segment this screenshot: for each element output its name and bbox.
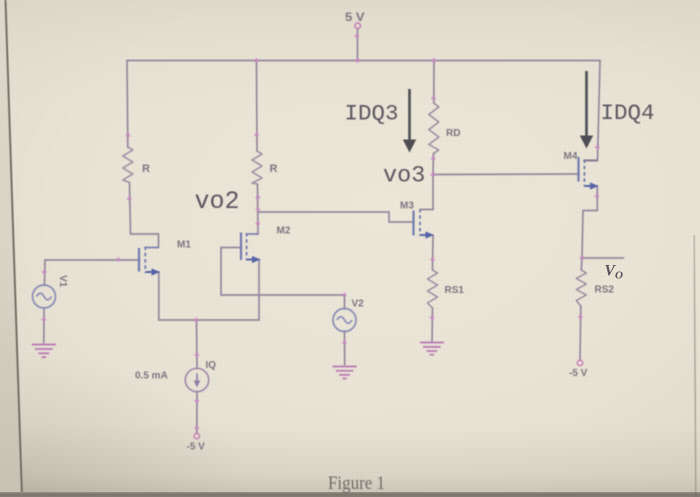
- transistor M3: [414, 209, 435, 239]
- svg-text:vo2: vo2: [195, 187, 240, 216]
- wire top supply rail: [127, 60, 600, 62]
- wire 5V drop: [357, 29, 359, 61]
- svg-text:V2: V2: [352, 299, 365, 310]
- node -5V port top: [194, 426, 199, 431]
- bottom-left corner vignette: [0, 250, 420, 497]
- node RD top: [431, 96, 436, 101]
- node V2 bottom: [342, 340, 347, 345]
- wire vo3 down to M3 drain: [432, 175, 434, 210]
- ground (under V1): [32, 345, 56, 358]
- voltage source V2: [333, 309, 356, 332]
- terminal -5V port (under IQ): [194, 433, 199, 438]
- wire M3 source down to RS1: [432, 236, 435, 271]
- svg-text:-5 V: -5 V: [187, 442, 206, 453]
- node tail junction: [194, 318, 199, 323]
- ground (under V2): [333, 367, 357, 379]
- node vo2: [256, 207, 261, 212]
- wire V1 to M1 gate: [45, 260, 140, 285]
- wire M2 source down: [258, 260, 260, 321]
- wire M2 gate to V2: [221, 248, 345, 296]
- photo edge dark line: [6, 0, 23, 497]
- wire vo3 node to M4 gate: [433, 173, 579, 176]
- wire V2 bottom to ground: [344, 332, 346, 366]
- wire V1 bottom to ground: [43, 308, 45, 343]
- svg-text:-5 V: -5 V: [569, 368, 588, 379]
- wire rail down to R2: [256, 61, 259, 152]
- node RS2 bottom: [578, 315, 583, 320]
- resistor RS1: [428, 270, 438, 308]
- bottom dark band: [0, 492, 700, 497]
- transistor M2: [241, 233, 261, 264]
- wire RD bottom to vo3 node: [432, 154, 435, 175]
- transistor M1: [139, 247, 160, 276]
- svg-text:0.5 mA: 0.5 mA: [135, 371, 168, 382]
- svg-text:IDQ3: IDQ3: [345, 101, 399, 127]
- top-left corner shade: [0, 0, 700, 110]
- svg-text:M1: M1: [177, 240, 191, 251]
- node V1 bottom: [41, 317, 46, 322]
- right photo edge line: [694, 235, 696, 497]
- svg-text:RD: RD: [446, 128, 460, 139]
- svg-text:R: R: [142, 163, 150, 175]
- bottom fade: [0, 425, 700, 493]
- current arrow IDQ4: [580, 71, 593, 149]
- svg-text:M2: M2: [277, 226, 291, 237]
- svg-text:Figure 1: Figure 1: [328, 474, 385, 494]
- node V2 corner: [342, 293, 347, 298]
- node M3 source wire: [430, 257, 435, 262]
- svg-text:IQ: IQ: [206, 360, 217, 371]
- wire IQ bottom to -5V terminal: [196, 392, 198, 434]
- node M4 drain wire: [595, 145, 600, 150]
- label Vo (handwritten): [605, 263, 624, 282]
- node rail at RD: [432, 58, 437, 63]
- node R2 top: [254, 133, 259, 138]
- svg-text:vo3: vo3: [383, 163, 425, 190]
- svg-text:IDQ4: IDQ4: [601, 100, 655, 126]
- wire right rail down to M4 drain: [585, 61, 601, 161]
- wire M1 source down: [158, 272, 160, 320]
- svg-text:M4: M4: [564, 151, 578, 162]
- node IQ bottom: [195, 399, 200, 404]
- wire RS1 bottom to ground: [431, 308, 434, 342]
- wire M4 source down to Vo node: [582, 186, 597, 258]
- node rail at 5V: [355, 58, 360, 63]
- wire R1 bottom to M1 drain: [130, 183, 159, 248]
- svg-text:M3: M3: [400, 201, 414, 212]
- node M2 drain wire: [256, 221, 261, 226]
- node R1 top: [126, 133, 131, 138]
- node Vo: [580, 256, 585, 261]
- node M1 gate wire: [116, 257, 121, 262]
- transistor M4: [579, 157, 599, 190]
- wire RS2 top: [580, 258, 583, 270]
- svg-text:RS1: RS1: [445, 285, 465, 296]
- node vo3: [431, 172, 436, 177]
- wire tail node down to IQ: [196, 320, 199, 369]
- left margin beyond photo edge: [0, 0, 22, 497]
- wire left rail down to R: [126, 61, 129, 148]
- node IQ top: [195, 353, 200, 358]
- wire V2 drop: [344, 295, 346, 309]
- node below 5V port: [354, 34, 359, 39]
- node RS1 bottom: [430, 315, 435, 320]
- wire Vo node tick: [582, 257, 624, 259]
- terminal -5V port (under RS2): [577, 360, 582, 365]
- wire vo2 node to M3 gate: [258, 212, 413, 222]
- wire common source tail rail: [159, 319, 259, 321]
- junction marks (pink crosses): [41, 34, 599, 431]
- svg-text:V1: V1: [57, 275, 68, 288]
- node rail at R2: [254, 58, 259, 63]
- resistor RS2: [576, 270, 586, 306]
- wire RS2 bottom to -5V terminal: [579, 306, 582, 360]
- wire R2 bottom through vo2 node to M2 drain: [257, 184, 260, 234]
- voltage source V1: [33, 285, 56, 308]
- current source IQ: [185, 368, 208, 391]
- wire rail down to RD: [433, 61, 435, 104]
- terminal 5V port: [355, 23, 361, 29]
- current arrow IDQ3: [403, 89, 416, 153]
- svg-text:RS2: RS2: [595, 285, 615, 296]
- resistor R (left, R1): [123, 147, 133, 183]
- resistor R (right, R2): [252, 151, 262, 184]
- node R2 bottom: [256, 195, 261, 200]
- ground (under RS1): [420, 343, 444, 355]
- svg-text:R: R: [270, 163, 278, 175]
- svg-text:5 V: 5 V: [345, 10, 365, 24]
- node R1 bottom: [127, 196, 132, 201]
- resistor RD: [429, 103, 439, 154]
- node RD bottom: [431, 156, 436, 161]
- node V1 top: [42, 270, 47, 275]
- node M4 source wire: [594, 194, 599, 199]
- svg-text:O: O: [615, 270, 623, 282]
